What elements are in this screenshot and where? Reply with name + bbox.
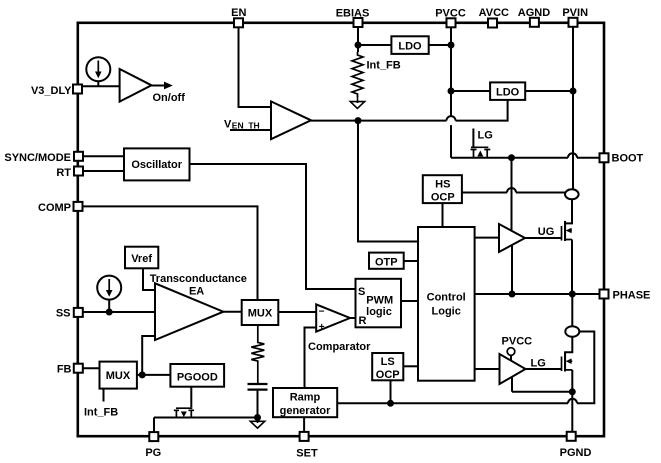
svg-text:On/off: On/off <box>153 92 186 104</box>
wire SYNC/MODE to oscillator <box>84 155 125 157</box>
op-amp On/off buffer <box>120 69 152 102</box>
pin SYNC/MODE <box>4 152 83 164</box>
svg-text:PHASE: PHASE <box>613 290 651 302</box>
svg-text:PWM: PWM <box>366 295 393 307</box>
wire VEN_TH input <box>224 119 271 131</box>
svg-text:Comparator: Comparator <box>308 341 371 353</box>
wire LS OCP drop <box>390 380 392 403</box>
svg-text:OTP: OTP <box>375 257 398 269</box>
pin COMP <box>38 202 83 214</box>
wire PVCC to LDO2 <box>451 90 490 92</box>
wire Vref to error amp <box>143 268 155 290</box>
wire EBIAS to LDO <box>358 44 391 46</box>
node PVCC LDO2 tap <box>448 88 455 95</box>
wire control logic to LG driver <box>475 368 500 370</box>
svg-text:logic: logic <box>366 306 392 318</box>
svg-text:PVIN: PVIN <box>562 7 588 19</box>
svg-text:V3_DLY: V3_DLY <box>31 85 72 97</box>
svg-text:OCP: OCP <box>431 191 455 203</box>
node FB MUX output junction <box>139 371 146 378</box>
block Control Logic <box>418 227 475 381</box>
op-amp EN comparator U2 <box>271 101 311 139</box>
op-amp Transconductance EA <box>150 273 247 340</box>
wire BOOT rail <box>451 157 599 159</box>
wire ramp to comparator plus input <box>305 328 317 389</box>
label PVCC and terminal for LG driver <box>502 335 533 360</box>
wire HS OCP to control logic <box>442 203 444 227</box>
svg-text:LG: LG <box>531 358 546 370</box>
node EBIAS LDO tap <box>355 42 362 49</box>
svg-text:RT: RT <box>56 167 71 179</box>
node EN comparator output branch <box>355 117 362 124</box>
op-amp UG driver <box>499 224 525 252</box>
svg-text:Int_FB: Int_FB <box>367 60 401 72</box>
svg-text:Ramp: Ramp <box>290 392 321 404</box>
svg-text:V: V <box>224 119 232 131</box>
svg-text:generator: generator <box>280 405 331 417</box>
current source I2 stem <box>108 300 110 313</box>
pin PVCC <box>435 7 466 27</box>
block OTP <box>369 253 404 269</box>
wire Int_FB stub <box>84 389 118 419</box>
wire PHASE to LS sense <box>571 294 573 326</box>
wire EN signal to control logic <box>358 121 418 242</box>
svg-text:−: − <box>319 307 325 318</box>
wire hop over FET column <box>568 399 577 404</box>
svg-text:Vref: Vref <box>131 253 152 265</box>
block Oscillator <box>124 148 190 180</box>
wire LG driver return <box>512 377 572 392</box>
wire UG FET source to PHASE rail <box>571 240 573 295</box>
pin BOOT <box>600 153 644 165</box>
wire LS OCP to control logic <box>403 365 418 367</box>
wire MUX to comparator minus input <box>278 311 316 313</box>
wire EN comparator output to LDO2 <box>311 100 508 121</box>
wire EN to comparator <box>239 28 272 107</box>
wire LDO2 to PVIN column <box>525 90 573 92</box>
block LDO (PVCC) <box>490 82 525 100</box>
block MUX (FB) <box>100 362 137 389</box>
ground symbol G2 <box>250 418 264 429</box>
svg-text:EA: EA <box>189 286 204 298</box>
svg-text:EN: EN <box>231 7 246 19</box>
svg-text:LG: LG <box>478 130 493 142</box>
pin PGND <box>560 432 592 459</box>
node LDO2 output on PVIN column <box>570 88 577 95</box>
wire PG rail <box>154 418 258 432</box>
svg-text:PVCC: PVCC <box>502 335 533 347</box>
current source I1 <box>86 57 110 81</box>
current sense ellipse HS <box>565 189 579 199</box>
pin V3_DLY <box>31 85 82 98</box>
pin SET <box>296 432 318 459</box>
op-amp PWM comparator <box>308 304 371 353</box>
wire COMP to MUX <box>83 206 258 300</box>
wire UG driver to gate <box>525 226 562 238</box>
block PGOOD <box>170 364 224 387</box>
wire LDO to PVCC column <box>429 44 451 46</box>
svg-text:PG: PG <box>145 447 161 459</box>
wire sense to LS FET drain <box>565 337 573 353</box>
transistor Q3 high side <box>562 221 573 241</box>
svg-text:Oscillator: Oscillator <box>131 159 182 171</box>
block HS OCP <box>423 175 462 203</box>
svg-text:PGND: PGND <box>560 447 592 459</box>
wire V3_DLY to buffer <box>83 85 120 87</box>
wire SS into error amp <box>83 311 155 313</box>
wire SET riser <box>303 417 305 431</box>
node PHASE FET junction <box>569 291 576 298</box>
wire EBIAS column <box>357 28 359 53</box>
pin RT <box>56 167 83 179</box>
ground symbol G1 <box>350 95 364 108</box>
block Vref <box>125 247 158 269</box>
svg-text:Transconductance: Transconductance <box>150 273 247 285</box>
node LS FET source junction <box>569 388 576 395</box>
node ground junction <box>254 414 261 421</box>
pin AGND <box>518 7 550 27</box>
wire PVCC column <box>450 28 452 158</box>
wire hop over PVIN column <box>568 153 577 158</box>
wire MUX to PGOOD <box>137 374 171 376</box>
block LDO (EBIAS) <box>391 36 428 54</box>
wire FB to MUX <box>83 367 99 369</box>
wire HS OCP to current sense <box>462 192 565 194</box>
svg-text:Int_FB: Int_FB <box>84 407 118 419</box>
wire LS FET source to PGND <box>571 370 573 431</box>
wire boot feed to UG driver <box>511 158 513 231</box>
pin FB <box>57 363 83 375</box>
svg-text:Logic: Logic <box>432 306 461 318</box>
resistor R1 Int_FB <box>352 52 401 97</box>
pin AVCC <box>479 7 509 28</box>
wire hop over PVCC column <box>447 116 456 121</box>
wire UG driver return <box>511 245 513 294</box>
current sense ellipse LS <box>565 326 579 337</box>
pin PG <box>145 432 161 459</box>
pin EN <box>231 7 246 27</box>
node UG driver return junction <box>509 291 516 298</box>
wire PGOOD to transistor gate <box>190 387 192 408</box>
pin PHASE <box>600 290 651 302</box>
wire PWM logic to control logic <box>401 300 418 302</box>
wire PHASE rail <box>475 293 599 295</box>
IC block border <box>78 23 604 436</box>
svg-text:SS: SS <box>56 307 71 319</box>
capacitor C1 <box>248 384 268 390</box>
wire OTP to control logic <box>404 260 418 262</box>
svg-text:MUX: MUX <box>248 308 273 320</box>
block Ramp generator <box>273 388 337 417</box>
wire capacitor to ground node <box>257 390 259 418</box>
op-amp LG driver <box>500 354 526 384</box>
wire RT to oscillator <box>84 170 125 172</box>
svg-text:MUX: MUX <box>106 370 131 382</box>
svg-text:LS: LS <box>381 356 395 368</box>
wire EA output to MUX <box>223 311 241 313</box>
transistor Q2 boot switch <box>471 147 491 157</box>
wire ramp generator to current sense <box>337 332 594 404</box>
svg-text:PGOOD: PGOOD <box>177 371 218 383</box>
svg-text:LDO: LDO <box>496 86 520 98</box>
svg-text:COMP: COMP <box>38 202 71 214</box>
node SS current source junction <box>106 309 113 316</box>
current source I2 <box>97 276 121 300</box>
wire feedback into error amp lower input <box>142 336 155 375</box>
node LDO output on PVCC column <box>448 42 455 49</box>
pin EBIAS <box>336 7 370 27</box>
wire comparator output to PWM R input <box>350 317 356 319</box>
svg-text:Control: Control <box>427 292 466 304</box>
svg-text:R: R <box>359 315 367 327</box>
pin SS <box>56 307 83 319</box>
wire sense to UG FET drain <box>565 199 572 223</box>
current source I1 stem <box>97 81 99 86</box>
wire oscillator output to PWM S input <box>190 164 356 289</box>
svg-text:AGND: AGND <box>518 7 550 19</box>
node boot feed junction <box>508 154 515 161</box>
pin PVIN <box>562 7 588 27</box>
svg-text:EBIAS: EBIAS <box>336 7 370 19</box>
transistor Q1 PGOOD open drain <box>174 408 194 417</box>
svg-text:AVCC: AVCC <box>479 7 509 19</box>
svg-text:SYNC/MODE: SYNC/MODE <box>4 152 71 164</box>
svg-text:FB: FB <box>57 363 72 375</box>
resistor R2 below MUX <box>251 325 264 384</box>
transistor Q4 low side <box>562 351 573 371</box>
svg-text:PVCC: PVCC <box>435 7 466 19</box>
block MUX (EA output) <box>242 300 279 325</box>
svg-text:EN_TH: EN_TH <box>232 121 260 131</box>
svg-text:BOOT: BOOT <box>612 153 644 165</box>
block PWM logic <box>356 279 402 328</box>
svg-text:OCP: OCP <box>376 369 400 381</box>
svg-text:S: S <box>358 286 365 298</box>
svg-text:SET: SET <box>296 447 318 459</box>
block LS OCP <box>372 353 403 381</box>
svg-text:LDO: LDO <box>398 40 422 52</box>
svg-text:HS: HS <box>435 178 450 190</box>
node LS OCP sense junction <box>387 400 394 407</box>
wire control logic to UG driver <box>475 237 499 239</box>
wire PVIN column <box>572 27 574 189</box>
wire LG gate stub <box>473 129 492 148</box>
wire LG driver to gate <box>526 358 562 370</box>
wire hop over boot feed <box>507 188 516 193</box>
svg-text:+: + <box>319 322 325 333</box>
wire On/off output arrow <box>152 82 186 105</box>
svg-text:UG: UG <box>538 226 555 238</box>
